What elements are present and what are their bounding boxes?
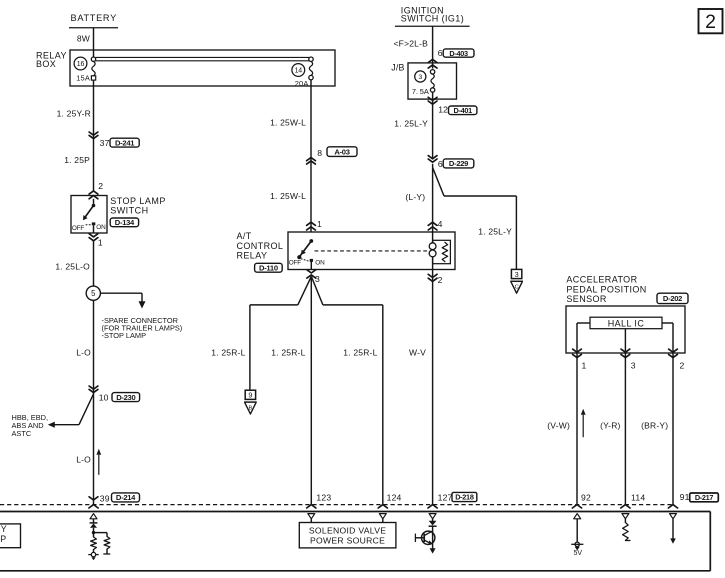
svg-text:OFF: OFF (72, 225, 84, 232)
svg-text:6: 6 (438, 159, 443, 169)
svg-text:Y: Y (1, 524, 7, 534)
svg-text:SENSOR: SENSOR (566, 294, 607, 304)
svg-text:C: C (515, 285, 519, 291)
svg-text:1. 25W-L: 1. 25W-L (270, 117, 306, 127)
svg-text:D-202: D-202 (663, 294, 682, 303)
svg-text:D-229: D-229 (449, 159, 468, 168)
svg-text:14: 14 (295, 68, 303, 75)
svg-text:D-217: D-217 (695, 493, 714, 502)
svg-text:1. 25R-L: 1. 25R-L (271, 348, 305, 358)
svg-text:1. 25L-Y: 1. 25L-Y (478, 227, 512, 237)
svg-text:2: 2 (705, 11, 716, 33)
svg-text:1: 1 (582, 361, 587, 371)
svg-text:20A: 20A (295, 79, 309, 88)
svg-text:D-134: D-134 (115, 218, 135, 227)
svg-text:8W: 8W (77, 33, 90, 43)
svg-text:3: 3 (515, 270, 519, 279)
svg-text:OFF: OFF (289, 260, 301, 267)
svg-text:15A: 15A (76, 74, 90, 83)
svg-text:RELAY: RELAY (237, 250, 268, 260)
svg-text:3: 3 (315, 274, 320, 284)
svg-text:PEDAL POSITION: PEDAL POSITION (566, 284, 646, 294)
svg-text:L-O: L-O (76, 455, 91, 465)
svg-text:39: 39 (100, 493, 110, 503)
svg-text:BOX: BOX (36, 59, 56, 69)
svg-text:1. 25W-L: 1. 25W-L (270, 191, 306, 201)
svg-text:37: 37 (100, 138, 110, 148)
svg-text:124: 124 (387, 492, 402, 502)
svg-text:2: 2 (98, 181, 103, 191)
svg-text:1: 1 (98, 238, 103, 248)
svg-text:1. 25R-L: 1. 25R-L (343, 348, 377, 358)
svg-text:4: 4 (438, 219, 443, 229)
svg-text:10: 10 (99, 393, 109, 403)
svg-text:2: 2 (438, 275, 443, 285)
svg-text:B: B (249, 405, 253, 411)
svg-text:SOLENOID VALVE: SOLENOID VALVE (309, 526, 386, 536)
svg-text:D-241: D-241 (115, 138, 135, 147)
svg-text:J/B: J/B (391, 63, 404, 73)
svg-text:A-03: A-03 (334, 147, 349, 156)
svg-text:(BR-Y): (BR-Y) (641, 420, 668, 430)
svg-text:D-230: D-230 (116, 393, 135, 402)
svg-text:5: 5 (91, 289, 96, 298)
svg-text:3: 3 (419, 74, 423, 81)
svg-text:3: 3 (631, 361, 636, 371)
svg-text:<F>2L-B: <F>2L-B (394, 38, 429, 48)
svg-text:7. 5A: 7. 5A (412, 87, 429, 96)
svg-text:POWER SOURCE: POWER SOURCE (310, 536, 385, 546)
svg-text:1. 25Y-R: 1. 25Y-R (57, 109, 91, 119)
svg-text:SWITCH: SWITCH (110, 205, 149, 215)
svg-text:BATTERY: BATTERY (71, 13, 117, 23)
svg-text:-STOP LAMP: -STOP LAMP (102, 331, 147, 340)
svg-text:9: 9 (248, 391, 252, 400)
svg-text:HALL IC: HALL IC (608, 318, 645, 328)
svg-text:1. 25L-Y: 1. 25L-Y (394, 118, 428, 128)
svg-text:127: 127 (438, 492, 453, 502)
svg-text:D-401: D-401 (454, 106, 473, 115)
svg-text:123: 123 (316, 492, 331, 502)
svg-text:D-110: D-110 (259, 264, 278, 273)
svg-text:114: 114 (631, 493, 645, 503)
svg-text:(V-W): (V-W) (547, 420, 570, 430)
svg-text:W-V: W-V (409, 348, 426, 358)
svg-text:(L-Y): (L-Y) (405, 192, 425, 202)
svg-text:D-214: D-214 (116, 493, 136, 502)
svg-text:1. 25R-L: 1. 25R-L (211, 348, 245, 358)
svg-text:ON: ON (96, 224, 106, 231)
svg-text:1. 25P: 1. 25P (64, 155, 90, 165)
svg-text:ASTC: ASTC (12, 429, 32, 438)
svg-text:1. 25L-O: 1. 25L-O (55, 261, 90, 271)
svg-text:16: 16 (77, 61, 85, 68)
svg-text:A/T: A/T (237, 231, 252, 241)
svg-text:8: 8 (317, 148, 322, 158)
svg-text:SWITCH (IG1): SWITCH (IG1) (401, 13, 464, 23)
svg-text:P: P (0, 534, 6, 544)
svg-text:L-O: L-O (76, 348, 91, 358)
svg-text:5V: 5V (574, 550, 583, 557)
svg-text:(Y-R): (Y-R) (600, 420, 621, 430)
svg-text:91: 91 (680, 492, 690, 502)
svg-text:92: 92 (581, 493, 591, 503)
svg-text:2: 2 (680, 361, 685, 371)
svg-text:ON: ON (315, 260, 325, 267)
svg-text:ACCELERATOR: ACCELERATOR (566, 275, 637, 285)
svg-text:D-403: D-403 (449, 49, 468, 58)
svg-text:6: 6 (438, 48, 443, 58)
svg-text:D-218: D-218 (455, 493, 474, 502)
svg-text:1: 1 (317, 219, 322, 229)
svg-text:12: 12 (438, 104, 448, 114)
